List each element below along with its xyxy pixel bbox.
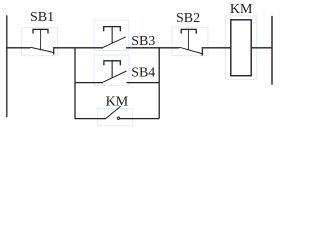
selection box around SB4 xyxy=(94,55,129,85)
wire: main rung, left bus to SB1 xyxy=(6,47,30,49)
svg-text:KM: KM xyxy=(230,2,253,17)
svg-text:SB2: SB2 xyxy=(176,11,200,26)
pushbutton SB2 (NC, stop) xyxy=(179,29,203,55)
wire: KM coil to right bus xyxy=(251,47,272,49)
wire: SB4 to right vertical xyxy=(127,82,160,84)
right bus xyxy=(271,16,273,85)
wire: SB2 to KM coil xyxy=(202,47,230,49)
selection box around KM contact xyxy=(98,109,133,126)
selection box around SB2 xyxy=(172,28,208,56)
pushbutton SB4 (NO, start) xyxy=(103,61,127,82)
selection box around SB3 xyxy=(94,20,129,50)
contactor coil KM xyxy=(231,20,251,76)
wire: SB4 branch, left vertical to SB4 xyxy=(75,82,104,84)
svg-text:SB4: SB4 xyxy=(131,65,155,80)
wire: KM contact branch, left vertical to KM contact xyxy=(75,118,107,120)
svg-text:KM: KM xyxy=(106,94,129,109)
svg-text:SB1: SB1 xyxy=(30,10,54,25)
pushbutton SB1 (NC, stop) xyxy=(30,29,54,54)
wire: SB3 to SB2 (passes junction x=159.2) xyxy=(126,47,179,49)
wire: left branch vertical (x=74.8) xyxy=(74,48,76,119)
svg-text:SB3: SB3 xyxy=(131,34,155,49)
selection box around KM coil xyxy=(225,16,256,79)
wire: KM contact to right vertical xyxy=(120,118,159,120)
auxiliary contact KM (NO, self-holding) xyxy=(106,106,121,119)
left bus xyxy=(6,15,8,117)
pushbutton SB3 (NO, start) xyxy=(103,27,126,48)
selection box around SB1 xyxy=(21,28,57,56)
wire: SB1 to SB3 (junction at x=74.8) xyxy=(54,47,103,49)
wire: right branch vertical (x=159.2) xyxy=(158,48,160,119)
